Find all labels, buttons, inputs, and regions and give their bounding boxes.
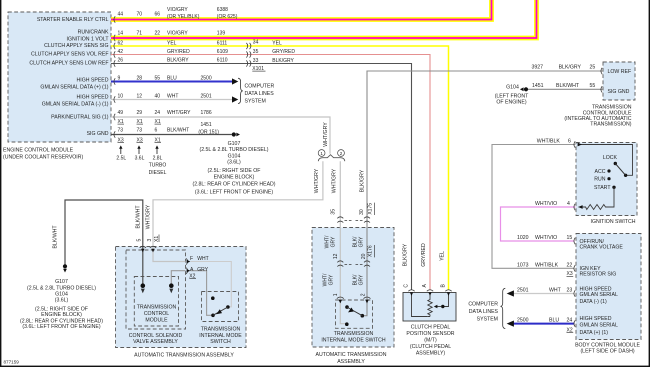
ground G107 symbol (dot and arrow) bbox=[232, 132, 236, 136]
brace computer data lines (top) bbox=[238, 78, 243, 103]
svg-text:1786: 1786 bbox=[201, 110, 212, 116]
svg-text:G104: G104 bbox=[506, 85, 519, 91]
BCM pin arcs 15 22 23 24 bbox=[574, 238, 575, 327]
svg-text:C: C bbox=[404, 284, 410, 288]
ignition switch lever bbox=[615, 164, 625, 176]
svg-text:RESISTOR SIG: RESISTOR SIG bbox=[580, 272, 617, 278]
svg-text:VIO/GRY: VIO/GRY bbox=[167, 7, 188, 13]
solenoid case ground dot 1 (in TCM) bbox=[141, 283, 146, 288]
svg-text:BLK/WHT: BLK/WHT bbox=[53, 225, 59, 249]
svg-text:BLK/WHT: BLK/WHT bbox=[135, 205, 141, 229]
svg-text:1020: 1020 bbox=[517, 235, 529, 241]
svg-text:TRANSMISSION: TRANSMISSION bbox=[201, 327, 241, 333]
svg-text:CONTROL: CONTROL bbox=[144, 311, 169, 317]
svg-text:(3.6L): (3.6L) bbox=[55, 298, 69, 304]
automatic transmission assembly box (middle) bbox=[312, 228, 394, 348]
svg-text:YEL: YEL bbox=[440, 251, 446, 261]
svg-text:DATA (+) (1): DATA (+) (1) bbox=[580, 330, 609, 336]
ignition switch box bbox=[576, 143, 637, 216]
svg-text:23: 23 bbox=[567, 288, 573, 294]
svg-text:WHT/BLK: WHT/BLK bbox=[537, 139, 561, 145]
svg-text:HIGH SPEED: HIGH SPEED bbox=[580, 316, 612, 322]
svg-text:71: 71 bbox=[137, 30, 143, 36]
svg-text:6: 6 bbox=[568, 139, 571, 145]
clutch pedal sensor pin entry arcs C A B bbox=[408, 290, 451, 291]
svg-text:HIGH SPEED: HIGH SPEED bbox=[77, 78, 109, 84]
svg-text:BLK/GRY: BLK/GRY bbox=[403, 243, 409, 266]
svg-text:22: 22 bbox=[155, 30, 161, 36]
svg-text:WHT/VIO: WHT/VIO bbox=[535, 201, 557, 207]
svg-text:GMLAN SERIAL: GMLAN SERIAL bbox=[580, 323, 618, 329]
svg-text:TRANSMISSION): TRANSMISSION) bbox=[590, 122, 631, 128]
svg-text:GMLAN SERIAL DATA (+) (1): GMLAN SERIAL DATA (+) (1) bbox=[40, 85, 108, 91]
wire 1451 BLK/WHT sig gnd to G107 (row 9) bbox=[111, 134, 232, 136]
page border left bbox=[0, 0, 1, 367]
svg-text:RUN: RUN bbox=[594, 177, 605, 183]
svg-text:44: 44 bbox=[118, 12, 124, 18]
svg-text:35: 35 bbox=[331, 209, 337, 215]
wire 6388 VIO/GRY starter enable rly ctrl (row 1) bbox=[111, 0, 492, 20]
wire 6109 GRY/RED clutch apply sens vol ref (row 4) bbox=[111, 55, 430, 291]
svg-text:34: 34 bbox=[253, 40, 259, 46]
svg-text:TRANSMISSION: TRANSMISSION bbox=[137, 305, 177, 311]
svg-text:CLUTCH APPLY SENS SIG: CLUTCH APPLY SENS SIG bbox=[44, 43, 108, 49]
svg-text:SIG GND: SIG GND bbox=[608, 89, 630, 95]
svg-text:14: 14 bbox=[118, 30, 124, 36]
svg-text:(2.8L: REAR OF CYLINDER HEAD): (2.8L: REAR OF CYLINDER HEAD) bbox=[192, 181, 275, 187]
svg-text:BLU: BLU bbox=[549, 318, 559, 324]
svg-text:49: 49 bbox=[118, 110, 124, 116]
svg-text:BLU: BLU bbox=[167, 76, 177, 82]
svg-text:SIG GND: SIG GND bbox=[87, 131, 109, 137]
svg-text:WHT/GRY: WHT/GRY bbox=[146, 204, 152, 229]
svg-text:GRY: GRY bbox=[330, 236, 336, 247]
arrow to computer data lines (row 7) bbox=[232, 96, 238, 102]
automatic transmission assembly box (left) bbox=[116, 247, 247, 348]
svg-text:LOCK: LOCK bbox=[603, 155, 618, 161]
svg-text:INTERNAL MODE: INTERNAL MODE bbox=[199, 333, 242, 339]
svg-text:CLUTCH APPLY SENS LOW REF: CLUTCH APPLY SENS LOW REF bbox=[29, 60, 108, 66]
svg-text:(OR 625): (OR 625) bbox=[217, 14, 238, 20]
captions left assembly bbox=[129, 305, 242, 359]
connector X176 arcs (middle wires) bbox=[337, 261, 370, 267]
wire 1451 BLK/WHT to G104 and TCM sig gnd bbox=[528, 88, 603, 90]
svg-text:CONTROL SOLENOID: CONTROL SOLENOID bbox=[129, 333, 183, 339]
svg-text:35: 35 bbox=[253, 49, 259, 55]
ECM pin labels rows bbox=[29, 17, 109, 137]
svg-text:2500: 2500 bbox=[201, 76, 212, 82]
svg-text:1: 1 bbox=[320, 151, 323, 156]
svg-text:G104: G104 bbox=[228, 153, 241, 159]
svg-text:ASSEMBLY): ASSEMBLY) bbox=[416, 351, 446, 357]
svg-text:BLK/GRY: BLK/GRY bbox=[360, 169, 366, 192]
svg-text:73: 73 bbox=[118, 128, 124, 134]
svg-text:2501: 2501 bbox=[517, 288, 529, 294]
captions middle assembly bbox=[316, 331, 387, 365]
svg-text:GRY/RED: GRY/RED bbox=[421, 243, 427, 267]
page border right bbox=[649, 0, 650, 367]
svg-text:20: 20 bbox=[361, 253, 367, 259]
svg-text:BLK/GRY: BLK/GRY bbox=[167, 58, 189, 64]
BCM pin captions bbox=[580, 239, 624, 336]
wire 139 VIO/GRY run/crank ignition 1 volt (row 2) bbox=[111, 0, 537, 38]
splice S238 bracket bbox=[318, 155, 345, 162]
ignition key resistor bbox=[579, 187, 615, 209]
svg-text:G107: G107 bbox=[228, 141, 241, 147]
svg-text:6109: 6109 bbox=[217, 49, 228, 55]
svg-text:42: 42 bbox=[118, 49, 124, 55]
wire WHT from connector F to internal mode switch (left) bbox=[191, 262, 232, 307]
svg-text:GMLAN SERIAL: GMLAN SERIAL bbox=[580, 292, 618, 298]
svg-text:1: 1 bbox=[333, 293, 339, 296]
mode switch (middle) pin 1 and 2 entry arcs bbox=[337, 297, 371, 299]
svg-text:DATA LINES: DATA LINES bbox=[469, 309, 499, 315]
svg-text:WHT: WHT bbox=[197, 256, 208, 262]
svg-text:55: 55 bbox=[155, 76, 161, 82]
svg-text:15: 15 bbox=[567, 235, 573, 241]
wire 1020 WHT/VIO ignition switch pin 4 to BCM pin 15 bbox=[501, 207, 576, 241]
wire 2500 BLU BCM pin 24 to data lines bbox=[514, 323, 575, 325]
svg-text:55: 55 bbox=[590, 83, 596, 89]
ECM connector arcs bbox=[114, 16, 115, 137]
svg-text:5: 5 bbox=[137, 239, 143, 242]
svg-text:RUN/CRANK: RUN/CRANK bbox=[78, 30, 109, 36]
svg-text:2.5L: 2.5L bbox=[116, 155, 126, 161]
splice branch 1 circled bbox=[318, 150, 325, 157]
svg-text:1073: 1073 bbox=[517, 262, 529, 268]
wire 1786 WHT/GRY park/neutral sig (row 8) bbox=[111, 117, 330, 154]
connector X2 arcs F and A bbox=[186, 258, 188, 273]
svg-text:6388: 6388 bbox=[217, 7, 228, 13]
wire 6110 BLK/GRY clutch apply sens low ref (row 5) bbox=[111, 64, 412, 291]
svg-text:62: 62 bbox=[118, 40, 124, 46]
splice branch 2 circled bbox=[338, 150, 345, 157]
ignition switch pin 6 and 4 arcs bbox=[574, 141, 575, 210]
ground G104 labels (right) bbox=[495, 85, 529, 106]
svg-text:(2.5L & 2.8L TURBO DIESEL): (2.5L & 2.8L TURBO DIESEL) bbox=[27, 285, 96, 291]
svg-text:GMLAN SERIAL DATA (-) (1): GMLAN SERIAL DATA (-) (1) bbox=[42, 102, 109, 108]
wire WHT/BLK ignition switch pin 6 to BCM pin 22 bbox=[492, 145, 576, 269]
svg-text:YEL: YEL bbox=[272, 40, 282, 46]
wire WHT/GRY splice branch 1 to CSVA pin 3 bbox=[153, 161, 323, 261]
svg-text:WHT/GRY: WHT/GRY bbox=[314, 168, 320, 193]
transmission control module box (top right) bbox=[603, 62, 635, 100]
svg-text:START: START bbox=[594, 185, 611, 191]
svg-text:2501: 2501 bbox=[201, 94, 212, 100]
svg-text:VIO/GRY: VIO/GRY bbox=[167, 30, 188, 36]
svg-text:1451: 1451 bbox=[201, 122, 212, 128]
svg-text:AUTOMATIC TRANSMISSION: AUTOMATIC TRANSMISSION bbox=[316, 352, 387, 358]
svg-text:6: 6 bbox=[155, 128, 158, 134]
svg-text:(M/T): (M/T) bbox=[424, 338, 437, 344]
engine variant labels bbox=[116, 155, 166, 176]
svg-text:70: 70 bbox=[137, 12, 143, 18]
svg-text:12: 12 bbox=[137, 94, 143, 100]
ground G104 symbol (dot and arrow left) bbox=[524, 87, 528, 91]
wire 2500 BLU gmlan serial data + (row 6) bbox=[111, 81, 233, 83]
wire 1451 BLK/WHT left assembly pin 5 to ground G107 (bottom left) bbox=[65, 200, 143, 285]
TCM pin 25 and 55 arcs bbox=[601, 68, 602, 93]
svg-text:ENGINE BLOCK): ENGINE BLOCK) bbox=[41, 312, 82, 318]
svg-text:IGNITION SWITCH: IGNITION SWITCH bbox=[591, 219, 636, 225]
wire GRY from solenoid ground to connector A to mode switch (left) bbox=[171, 271, 212, 316]
svg-text:(OR 151): (OR 151) bbox=[198, 129, 219, 135]
engine control module box bbox=[8, 12, 111, 142]
svg-text:G104: G104 bbox=[55, 291, 68, 297]
wire 2501 WHT BCM pin 23 to data lines bbox=[514, 293, 575, 295]
svg-text:WHT/VIO: WHT/VIO bbox=[535, 235, 557, 241]
svg-text:2500: 2500 bbox=[517, 318, 529, 324]
ground G107 label block (bottom left) bbox=[20, 279, 103, 330]
mode switch (left) lone contact dot bbox=[211, 296, 215, 300]
computer data lines system (top) bbox=[245, 83, 275, 104]
svg-text:PARK/NEUTRAL SIG (1): PARK/NEUTRAL SIG (1) bbox=[51, 115, 109, 121]
svg-text:GRY/RED: GRY/RED bbox=[272, 49, 295, 55]
captions clutch pedal sensor bbox=[406, 325, 454, 357]
svg-text:SYSTEM: SYSTEM bbox=[245, 98, 266, 104]
arrow to computer data lines (row 6) bbox=[232, 78, 238, 84]
BCM caption bbox=[575, 342, 640, 354]
svg-text:ASSEMBLY: ASSEMBLY bbox=[337, 359, 365, 365]
svg-text:BLK/GRY: BLK/GRY bbox=[272, 58, 294, 64]
svg-text:877159: 877159 bbox=[4, 359, 20, 364]
svg-text:DATA LINES: DATA LINES bbox=[245, 91, 275, 97]
svg-text:28: 28 bbox=[137, 76, 143, 82]
svg-text:CRANK VOLTAGE: CRANK VOLTAGE bbox=[580, 245, 624, 251]
wire 3927 BLK/GRY low ref from TCM to middle mode switch pin 2 bbox=[363, 71, 603, 316]
svg-text:TURBO: TURBO bbox=[149, 163, 167, 169]
svg-text:COMPUTER: COMPUTER bbox=[245, 83, 275, 89]
svg-text:2: 2 bbox=[340, 151, 343, 156]
svg-text:GRY: GRY bbox=[358, 274, 364, 285]
svg-text:BLK/WHT: BLK/WHT bbox=[167, 128, 189, 134]
svg-text:(2.5L & 2.8L TURBO DIESEL): (2.5L & 2.8L TURBO DIESEL) bbox=[199, 147, 268, 153]
svg-text:GRY: GRY bbox=[197, 267, 208, 273]
svg-text:139: 139 bbox=[217, 30, 226, 36]
wire 6111 YEL clutch apply sens sig (row 3) bbox=[111, 46, 449, 290]
mode switch (middle) contact dots and lever bbox=[345, 305, 349, 309]
ECM pin numbers row 1 bbox=[118, 7, 238, 143]
control solenoid valve assembly box bbox=[126, 250, 186, 329]
svg-text:24: 24 bbox=[567, 318, 573, 324]
svg-text:(3.6L: LEFT FRONT OF ENGINE): (3.6L: LEFT FRONT OF ENGINE) bbox=[195, 189, 273, 195]
svg-text:GRY/RED: GRY/RED bbox=[167, 49, 190, 55]
svg-text:VALVE ASSEMBLY: VALVE ASSEMBLY bbox=[133, 339, 178, 345]
svg-text:ENGINE CONTROL MODULE: ENGINE CONTROL MODULE bbox=[3, 148, 74, 154]
connector X101 pins 34 35 33 bbox=[252, 40, 295, 72]
transmission internal mode switch box (middle) bbox=[336, 300, 373, 328]
svg-text:33: 33 bbox=[253, 58, 259, 64]
svg-text:2: 2 bbox=[360, 293, 366, 296]
sensor low ref path pin C bbox=[412, 293, 428, 317]
svg-text:26: 26 bbox=[118, 58, 124, 64]
connector X101 arcs rows 3-5 bbox=[246, 43, 251, 67]
svg-text:66: 66 bbox=[155, 12, 161, 18]
svg-text:CLUTCH APPLY SENS VOL REF: CLUTCH APPLY SENS VOL REF bbox=[31, 52, 108, 58]
svg-text:ACC: ACC bbox=[595, 169, 606, 175]
svg-text:6110: 6110 bbox=[217, 58, 228, 64]
svg-text:(OR YEL/BLK): (OR YEL/BLK) bbox=[167, 14, 200, 20]
svg-text:25: 25 bbox=[590, 65, 596, 71]
svg-text:6111: 6111 bbox=[217, 40, 228, 46]
svg-text:WHT/GRY: WHT/GRY bbox=[167, 110, 191, 116]
svg-text:73: 73 bbox=[137, 128, 143, 134]
body control module box bbox=[576, 234, 641, 340]
svg-text:DATA (-) (1): DATA (-) (1) bbox=[580, 299, 607, 305]
svg-text:(LEFT SIDE OF DASH): (LEFT SIDE OF DASH) bbox=[580, 348, 634, 354]
wire WHT/GRY splice branch 2 to middle mode switch pin 1 bbox=[340, 161, 346, 324]
svg-text:22: 22 bbox=[567, 262, 573, 268]
svg-text:(CLUTCH PEDAL: (CLUTCH PEDAL bbox=[410, 344, 451, 350]
svg-text:GRY: GRY bbox=[328, 274, 334, 285]
svg-text:10: 10 bbox=[118, 94, 124, 100]
svg-text:F: F bbox=[190, 256, 193, 262]
svg-text:G107: G107 bbox=[55, 279, 68, 285]
ignition switch internal wiring bbox=[578, 145, 633, 176]
svg-text:INTERNAL MODE SWITCH: INTERNAL MODE SWITCH bbox=[321, 337, 386, 343]
svg-text:TRANSMISSION: TRANSMISSION bbox=[334, 331, 374, 337]
svg-text:COMPUTER: COMPUTER bbox=[468, 301, 498, 307]
svg-text:WHT/GRY: WHT/GRY bbox=[323, 122, 329, 147]
svg-text:30: 30 bbox=[359, 209, 365, 215]
svg-text:3: 3 bbox=[147, 239, 153, 242]
brace computer data lines (bottom) bbox=[501, 288, 506, 328]
svg-text:OF ENGINE): OF ENGINE) bbox=[496, 99, 527, 105]
left assembly pins 5 and 3 entry arcs bbox=[140, 246, 157, 247]
svg-text:STARTER ENABLE RLY CTRL: STARTER ENABLE RLY CTRL bbox=[37, 17, 109, 23]
svg-text:(2.5L: RIGHT SIDE OF: (2.5L: RIGHT SIDE OF bbox=[208, 168, 261, 174]
svg-text:X176: X176 bbox=[368, 245, 374, 257]
svg-text:ENGINE BLOCK): ENGINE BLOCK) bbox=[214, 174, 255, 180]
engine variant arrows (2.5L 3.6L 2.8L) bbox=[121, 148, 157, 154]
svg-text:4: 4 bbox=[567, 201, 570, 207]
ground G107 symbol (bottom left) bbox=[63, 264, 67, 268]
svg-text:LOW REF: LOW REF bbox=[608, 69, 632, 75]
svg-text:DIESEL: DIESEL bbox=[149, 170, 167, 176]
ground G107 label block (middle) bbox=[192, 141, 275, 196]
transmission control module box (inner, left) bbox=[134, 277, 178, 327]
svg-text:9: 9 bbox=[118, 76, 121, 82]
solenoid case ground dot 2 (in TCM) bbox=[169, 283, 174, 288]
svg-text:24: 24 bbox=[155, 110, 161, 116]
svg-text:X175: X175 bbox=[368, 203, 374, 215]
X1/X3 underlines bbox=[118, 124, 162, 142]
mode switch (left) contact dots and lever bbox=[211, 314, 215, 318]
svg-text:3.6L: 3.6L bbox=[135, 155, 145, 161]
svg-text:WHT: WHT bbox=[549, 288, 562, 294]
page border bottom bbox=[0, 366, 650, 367]
ignition switch position labels bbox=[594, 155, 618, 191]
svg-text:IGNITION 1 VOLT: IGNITION 1 VOLT bbox=[67, 36, 110, 42]
sensor potentiometer resistor bbox=[427, 293, 432, 317]
svg-text:1451: 1451 bbox=[532, 83, 544, 89]
svg-text:(3.6L): (3.6L) bbox=[227, 160, 241, 166]
connector X175 arcs (middle wires) bbox=[337, 217, 370, 223]
svg-text:SWITCH: SWITCH bbox=[210, 339, 231, 345]
svg-text:YEL: YEL bbox=[167, 40, 177, 46]
clutch pedal position sensor box bbox=[403, 293, 456, 322]
svg-text:29: 29 bbox=[137, 110, 143, 116]
svg-text:2.8L: 2.8L bbox=[153, 155, 163, 161]
svg-text:BLK/GRY: BLK/GRY bbox=[559, 65, 582, 71]
transmission internal mode switch box (left) bbox=[202, 292, 239, 322]
svg-text:3927: 3927 bbox=[532, 65, 544, 71]
svg-text:BLK/WHT: BLK/WHT bbox=[556, 83, 580, 89]
svg-text:40: 40 bbox=[155, 94, 161, 100]
svg-text:(3.6L: LEFT FRONT OF ENGINE): (3.6L: LEFT FRONT OF ENGINE) bbox=[22, 324, 100, 330]
svg-text:AUTOMATIC TRANSMISSION ASSEMBL: AUTOMATIC TRANSMISSION ASSEMBLY bbox=[134, 353, 234, 359]
svg-text:POSITION SENSOR: POSITION SENSOR bbox=[406, 331, 454, 337]
ignition switch contacts LOCK/ACC/RUN/START bbox=[624, 174, 627, 177]
computer data lines system (bottom) bbox=[468, 301, 498, 322]
wire 2501 WHT gmlan serial data - (row 7) bbox=[111, 99, 233, 101]
svg-text:WHT/GRY: WHT/GRY bbox=[332, 168, 338, 193]
TCM caption bbox=[564, 105, 632, 128]
svg-text:12: 12 bbox=[333, 253, 339, 259]
sensor wiper from pin B bbox=[444, 293, 449, 307]
svg-text:WHT: WHT bbox=[167, 94, 178, 100]
svg-text:SYSTEM: SYSTEM bbox=[477, 316, 498, 322]
svg-text:WHT/BLK: WHT/BLK bbox=[535, 262, 559, 268]
svg-text:HIGH SPEED: HIGH SPEED bbox=[77, 95, 109, 101]
svg-text:(UNDER COOLANT RESERVOIR): (UNDER COOLANT RESERVOIR) bbox=[3, 154, 83, 160]
svg-text:GRY: GRY bbox=[358, 236, 364, 247]
svg-text:CLUTCH PEDAL: CLUTCH PEDAL bbox=[411, 325, 451, 331]
svg-text:MODULE: MODULE bbox=[145, 318, 168, 324]
